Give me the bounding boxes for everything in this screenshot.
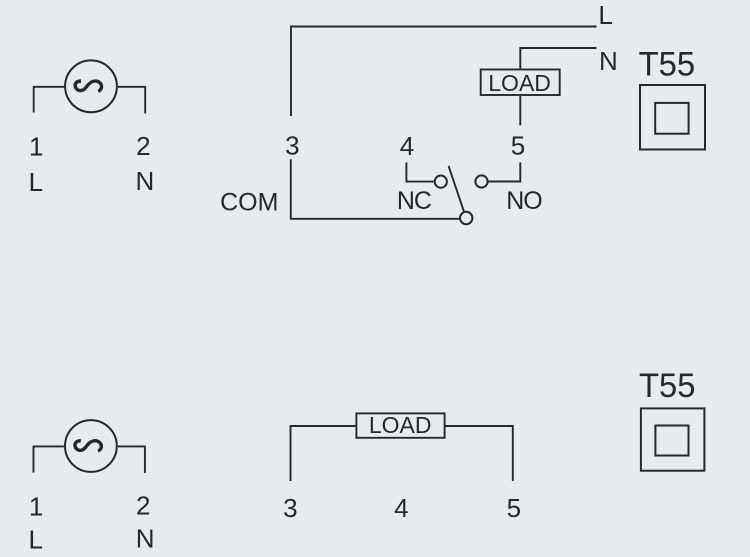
svg-text:N: N xyxy=(136,524,155,554)
timer symbol outer square (top) xyxy=(640,85,705,150)
svg-text:LOAD: LOAD xyxy=(488,70,551,96)
svg-text:4: 4 xyxy=(394,493,408,523)
svg-text:NC: NC xyxy=(397,187,432,215)
wire LOAD to terminal 5 (bottom) xyxy=(446,426,513,481)
svg-text:2: 2 xyxy=(136,491,150,521)
LOAD box (bottom) xyxy=(356,413,444,437)
svg-text:L: L xyxy=(28,525,42,555)
wire LOAD to N line xyxy=(520,48,596,69)
wire NO contact to terminal 5 xyxy=(489,162,521,181)
NO contact circle xyxy=(475,175,487,187)
svg-text:4: 4 xyxy=(400,131,414,161)
AC source G2 (bottom) xyxy=(65,420,117,472)
svg-text:N: N xyxy=(599,46,618,76)
AC source G1 (top) xyxy=(65,60,117,112)
svg-text:T55: T55 xyxy=(639,367,696,405)
svg-text:3: 3 xyxy=(283,493,297,523)
wire L line from terminal 3 xyxy=(291,27,597,117)
svg-text:LOAD: LOAD xyxy=(369,412,432,438)
wire terminal 5 to LOAD (top) xyxy=(519,96,521,125)
svg-text:5: 5 xyxy=(507,493,521,523)
sine symbol in source G1 xyxy=(75,81,101,91)
LOAD box (top) xyxy=(481,70,560,96)
timer symbol inner square (top) xyxy=(655,103,688,134)
svg-text:L: L xyxy=(598,0,612,30)
wire source lead to terminal 1 (bottom) xyxy=(34,446,64,472)
wire source lead to terminal 1 (top) xyxy=(34,87,65,113)
wire source lead to terminal 2 (bottom) xyxy=(118,446,145,473)
wire COM from terminal 3 to switch pivot xyxy=(291,159,459,219)
switch lever xyxy=(449,166,464,211)
svg-text:1: 1 xyxy=(29,131,43,161)
svg-text:L: L xyxy=(29,167,43,197)
svg-text:T55: T55 xyxy=(639,46,696,84)
svg-text:1: 1 xyxy=(29,492,43,522)
svg-text:NO: NO xyxy=(506,187,542,215)
switch pivot circle xyxy=(460,212,472,224)
timer symbol inner square (bottom) xyxy=(655,426,688,456)
wire terminal 4 to NC contact xyxy=(406,162,433,181)
timer symbol outer square (bottom) xyxy=(641,408,705,470)
svg-text:5: 5 xyxy=(511,131,525,161)
sine symbol in source G2 xyxy=(75,441,101,451)
svg-text:COM: COM xyxy=(220,189,278,217)
wire terminal 3 to LOAD (bottom) xyxy=(291,426,356,481)
svg-text:2: 2 xyxy=(136,131,150,161)
wire source lead to terminal 2 (top) xyxy=(118,87,145,114)
NC contact circle xyxy=(435,176,447,188)
svg-text:N: N xyxy=(136,166,155,196)
svg-text:3: 3 xyxy=(285,131,299,161)
